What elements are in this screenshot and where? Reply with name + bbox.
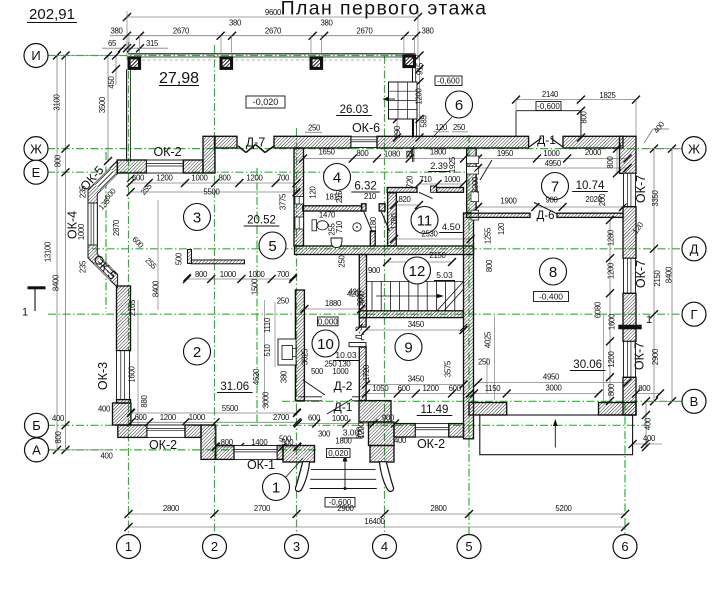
svg-text:3500: 3500 [98,96,107,113]
axis line Е horizontal [47,171,470,173]
left dim chain 3100/800/8400/800 [65,56,67,451]
svg-text:2700: 2700 [254,504,271,513]
svg-text:720: 720 [406,175,415,188]
svg-text:915: 915 [416,62,425,75]
axis line Г horizontal [48,313,683,315]
stairwell west wall [359,255,366,318]
svg-text:ОК-2: ОК-2 [153,145,181,159]
corridor wall east part [557,213,623,217]
door Д-6 leaf [534,203,557,214]
entry stair left banister [295,462,309,492]
svg-text:1200: 1200 [607,350,616,367]
svg-text:5: 5 [268,238,276,255]
axis circle И [24,44,48,68]
svg-text:2140: 2140 [542,90,559,99]
svg-text:31.06: 31.06 [220,381,249,393]
wall NE corner [620,136,637,173]
axis circle 6 [613,535,637,559]
room 3 dim 5500 total [131,191,297,193]
svg-text:450: 450 [107,75,116,88]
svg-text:2900: 2900 [651,348,660,365]
svg-text:ОК-1: ОК-1 [247,458,275,472]
vestibule door jamb [379,204,385,211]
svg-text:1900: 1900 [500,197,517,206]
wall after ОК-2 bottom [185,425,201,437]
room circle 9 [395,334,422,361]
svg-text:9600: 9600 [265,8,282,17]
svg-text:А: А [32,443,41,458]
svg-text:8400: 8400 [152,280,161,297]
room 11 dim 2530 [394,238,470,240]
minor green axis at bay window [105,152,107,312]
svg-text:800: 800 [195,270,208,279]
svg-text:Е: Е [32,165,41,180]
WC door leaf [364,211,373,232]
svg-text:1000: 1000 [444,175,461,184]
svg-text:2800: 2800 [163,504,180,513]
room 9 dim row 1050/600/1200/600 [366,393,470,395]
dimension texts [44,8,674,526]
svg-text:315: 315 [146,39,159,48]
svg-text:380: 380 [229,19,242,28]
svg-text:235: 235 [79,185,88,198]
wall Ж segment Д-1 to corner [563,136,623,148]
axis line А horizontal [47,449,316,451]
wall В-axis segment west [469,403,507,416]
right wall top dim 800 [616,149,618,174]
section mark 1 left [28,286,46,289]
svg-text:202,91: 202,91 [29,6,75,23]
svg-text:290: 290 [393,125,402,138]
window ОК-6 [351,137,377,148]
svg-text:-0,020: -0,020 [253,97,279,107]
svg-text:В: В [690,394,699,409]
room 10 dim 1880 [304,308,361,310]
svg-text:1110: 1110 [263,317,272,333]
stair direction arrow [376,295,440,297]
level 0,020 [327,449,351,458]
svg-text:1470: 1470 [319,211,336,220]
room9 west wall upper [359,318,366,327]
room 9 dim 3450 top [366,329,464,331]
wall В-axis segment east [599,403,637,416]
axis circle 4 [373,535,397,559]
svg-text:1000: 1000 [248,270,265,279]
svg-text:1000: 1000 [220,270,237,279]
svg-text:3775: 3775 [279,193,288,210]
svg-text:880: 880 [140,394,149,407]
svg-text:1000: 1000 [543,149,560,158]
svg-text:ОК-3: ОК-3 [96,362,110,390]
svg-text:0,020: 0,020 [328,449,349,458]
stair break line [437,282,463,311]
svg-text:1400: 1400 [251,438,268,447]
svg-text:3000: 3000 [261,391,270,408]
witness tick marks [127,175,134,182]
svg-text:1000: 1000 [332,367,349,376]
axis circle Б [25,413,49,437]
axis circle Е [24,160,48,184]
axis line И horizontal [47,55,418,57]
room circle 7 [542,173,569,200]
svg-text:6: 6 [621,539,628,554]
svg-text:1: 1 [22,307,28,319]
svg-text:1200: 1200 [606,262,615,279]
window ОК-7 upper [624,173,636,206]
svg-text:1200: 1200 [156,173,173,182]
wall SW corner [113,403,131,425]
svg-text:400: 400 [98,405,111,414]
corridor wall west part [467,213,531,217]
room3 inner dim vertical [157,200,159,310]
svg-text:1600: 1600 [127,365,136,382]
svg-text:235: 235 [79,260,88,273]
svg-text:3025: 3025 [300,348,309,365]
svg-text:1800: 1800 [335,437,352,446]
sink [331,238,342,248]
svg-text:26.03: 26.03 [340,104,369,116]
wall Б-axis right piece [449,424,464,437]
dim 4950 room 8 [478,382,628,384]
svg-text:800: 800 [221,438,234,447]
svg-text:8400: 8400 [665,266,674,283]
room 2 dim row 600/1200/1000/2700 [131,421,297,423]
svg-text:2000: 2000 [585,148,602,157]
room 8 vertical dim chain [609,220,611,401]
svg-text:3450: 3450 [408,320,425,329]
window ОК-4 [88,203,97,245]
lobby partition room10-room1 [298,396,322,398]
room circle 4 [324,164,351,191]
svg-text:8: 8 [549,264,557,281]
svg-text:200: 200 [598,193,607,206]
svg-text:4: 4 [333,169,341,186]
svg-text:2670: 2670 [356,27,373,36]
room2 inner dim vertical [264,300,266,410]
svg-text:5: 5 [465,539,472,554]
svg-text:800: 800 [638,384,651,393]
svg-text:380: 380 [320,19,333,28]
bottom total dim 16400 [129,526,626,528]
svg-text:2: 2 [193,344,201,361]
svg-text:3: 3 [293,539,300,554]
svg-text:27,98: 27,98 [159,70,199,87]
svg-text:3: 3 [193,209,201,226]
wall Ж segment ОК-6 to Д-1 [377,136,529,148]
svg-text:2530: 2530 [421,230,438,239]
hall dim row 1950/1000/2000 [478,158,628,160]
svg-text:500: 500 [279,435,292,444]
vent boxes in wall [467,156,479,164]
stair window grid [389,82,418,119]
svg-text:2900: 2900 [337,504,354,513]
tambour right pillar [370,446,394,463]
svg-text:2200: 2200 [471,176,480,193]
svg-text:10: 10 [317,336,334,353]
svg-text:4: 4 [381,539,388,554]
right-bottom dim 400 horizontal [633,443,662,445]
axis line 2 vertical [214,45,216,535]
svg-text:2165: 2165 [128,299,137,316]
svg-text:1: 1 [125,539,132,554]
tambour left pillar [283,446,315,463]
dim 800 right of wall [636,393,660,395]
svg-text:3450: 3450 [408,375,425,384]
svg-text:380: 380 [280,370,289,383]
svg-text:250: 250 [478,358,491,367]
svg-text:20.52: 20.52 [247,215,276,227]
svg-text:ОК-7: ОК-7 [634,175,648,203]
svg-text:Г: Г [690,307,697,322]
svg-text:8400: 8400 [52,274,61,291]
north inside dim row 1650/800/1080/1800 [303,158,464,160]
porch dim 800 vertical [580,111,582,138]
svg-text:2670: 2670 [265,27,282,36]
door Д-1 leaves [529,138,542,147]
svg-text:Д-6: Д-6 [536,210,554,222]
room 2 dim row 800/1400/500 on A wall [216,446,298,448]
svg-text:120: 120 [497,222,506,235]
stair dim 2150 [387,261,452,263]
svg-text:2.39: 2.39 [430,161,448,171]
svg-text:Ж: Ж [30,141,42,156]
svg-text:700: 700 [277,173,290,182]
svg-text:800: 800 [606,155,615,168]
svg-text:800: 800 [485,259,494,272]
WC door jamb [362,204,366,211]
svg-text:4950: 4950 [543,373,560,382]
svg-text:2: 2 [211,539,218,554]
entry stair up arrow [344,460,346,489]
terrace outline [480,415,633,455]
level -0,020 [246,96,285,108]
svg-text:6: 6 [455,97,463,114]
svg-text:ОК-2: ОК-2 [417,437,445,451]
room circle 11 [411,207,438,234]
axis line Б horizontal [47,424,645,426]
window ОК-3 [117,351,130,400]
leader 400 NE corner [644,129,653,143]
svg-text:10.03: 10.03 [335,350,357,360]
svg-text:Д-1: Д-1 [537,133,556,147]
column K2 [220,57,233,70]
window ОК-5 lower diagonal [94,258,116,280]
door Д-7 folding symbol [238,146,246,153]
svg-text:3000: 3000 [545,384,562,393]
left room2 dim vertical chain [137,300,139,425]
axis circle 5 [457,535,481,559]
svg-text:-0,600: -0,600 [537,102,560,111]
svg-text:400: 400 [643,434,656,443]
svg-text:1050: 1050 [372,384,389,393]
minor green axis x257 [256,168,258,425]
svg-text:600: 600 [308,414,321,423]
svg-text:ОК-2: ОК-2 [149,438,177,452]
svg-text:30.06: 30.06 [573,359,602,371]
svg-text:1000: 1000 [332,414,349,423]
east wall lower [623,377,636,415]
svg-text:5500: 5500 [203,188,220,197]
veranda roof dashed line [131,59,413,61]
wall Б-axis left piece [394,424,415,437]
svg-text:10.74: 10.74 [576,180,605,192]
porch outline [515,111,517,137]
svg-text:900: 900 [382,414,395,423]
svg-text:11.49: 11.49 [421,404,449,416]
dim row 1150/3000 [474,393,599,395]
svg-text:600: 600 [398,384,411,393]
svg-text:1880: 1880 [325,299,342,308]
svg-text:Ж: Ж [688,141,700,156]
tambour right wall upper [359,401,391,422]
wall room3-room4 vertical [294,148,304,246]
stair window arrow [383,98,395,100]
left inner dim 450 [115,56,117,86]
svg-text:6080: 6080 [593,301,602,318]
svg-text:ОК-7: ОК-7 [633,342,647,370]
room 8 witness 4025 [494,316,496,400]
stair treads room 12 [371,282,373,311]
svg-text:1650: 1650 [319,148,336,157]
axis circle В right [682,389,706,413]
hall dim 4950 total [478,167,628,169]
level 0,000 [318,317,339,326]
svg-text:500: 500 [311,367,324,376]
wall step connector SW [201,425,216,459]
room circle 10 [312,330,339,357]
svg-text:4950: 4950 [545,159,562,168]
corridor wall Д-axis horizontal [295,246,474,255]
svg-text:2150: 2150 [429,251,446,260]
svg-text:1800: 1800 [430,148,447,157]
WC east wall chunk [370,232,375,247]
wall Ж-west segment with step [203,136,215,173]
veranda right wall double line [412,68,414,138]
svg-text:4025: 4025 [484,331,493,348]
wall room9-room8 vertical [464,213,474,439]
svg-text:215: 215 [335,190,344,203]
svg-text:-0,400: -0,400 [539,292,563,302]
svg-text:250: 250 [453,123,466,132]
wall Б-axis SW with window [118,425,147,437]
terrace arrow [554,422,556,448]
window ОК-2 bottom-left [147,425,185,437]
svg-text:1180: 1180 [369,216,378,233]
room9 west wall lower [359,347,366,401]
svg-text:1000: 1000 [191,173,208,182]
room Е dim row 600/1200/1000/800/1200/700 [131,182,297,184]
svg-text:800: 800 [580,110,589,123]
svg-text:4.50: 4.50 [442,222,461,233]
wall Ж segment to Д-7 [215,136,238,148]
svg-text:1200: 1200 [160,413,177,422]
axis line 1 vertical [128,42,130,535]
svg-text:600: 600 [132,173,145,182]
svg-text:380: 380 [110,27,123,36]
svg-text:250: 250 [308,124,321,133]
svg-text:1255: 1255 [483,227,492,244]
svg-text:12: 12 [409,263,426,280]
west wall lower [117,286,131,351]
low wall L-shape room 3 [188,250,192,264]
right dim chain 3350/2150/2900 [653,149,655,402]
svg-text:16400: 16400 [364,517,385,526]
svg-text:Б: Б [32,418,41,433]
axis circle Ж left [24,137,48,161]
axis line В horizontal [282,400,683,402]
svg-text:300: 300 [318,430,331,439]
top dim line 9600 [127,16,418,18]
svg-text:500: 500 [175,252,184,265]
window ОК-2 room 9 [415,424,448,437]
level -0,600 top [435,76,462,86]
veranda left wall double line [126,69,128,161]
bottom dim chain 2800/2700/2900/2800/5200 [129,513,626,515]
flue vents in room3-4 wall [295,197,304,205]
room circle 5 [259,232,286,259]
door Д-3 leaf bar [349,343,366,347]
room circle 6 with leader [433,117,452,137]
svg-text:585: 585 [420,114,429,127]
room 1 dim row 600/1000/900 [298,423,395,425]
svg-text:3575: 3575 [444,360,453,377]
wall А-axis west of tambour [277,446,283,460]
corridor dim row 1900/900/2020 [478,206,623,208]
east wall between windows 1 [623,207,636,259]
svg-text:710: 710 [419,175,432,184]
room 8 witness 250 [486,358,488,394]
window ОК-1 [234,446,277,460]
svg-text:11: 11 [417,212,433,229]
svg-text:3100: 3100 [53,93,62,110]
svg-text:1: 1 [272,479,280,496]
svg-text:ОК-7: ОК-7 [634,260,648,288]
wall А-axis piece [216,446,234,460]
svg-text:План первого этажа: План первого этажа [281,0,488,20]
window ОК-5 upper diagonal [94,168,116,190]
column dim extension lines [128,36,130,56]
axis line 3 vertical [296,128,298,535]
svg-text:710: 710 [335,220,344,233]
axis circle Ж right [682,137,706,161]
axis circle А [25,438,49,462]
top-right dim line 2140/1825 [516,99,636,101]
svg-text:1200: 1200 [423,384,440,393]
axis circle 2 [203,535,227,559]
room 3 bottom dim row 800/1000/1000/700 [187,278,293,280]
svg-text:600: 600 [134,413,147,422]
svg-text:900: 900 [356,293,365,306]
svg-text:1200: 1200 [357,421,366,438]
axis circle Г right [682,302,706,326]
tambour right wall mid [369,422,395,446]
section lintel mark right [618,325,641,330]
svg-text:3350: 3350 [651,189,660,206]
left inner dim 3500 [107,56,109,162]
door Д-1 leaf lobby [327,399,352,414]
hall door Д-5 leaf [480,160,492,180]
svg-text:1720: 1720 [362,364,371,381]
dim line 710/1000 room11 top [419,183,463,185]
flue box room2 wall [278,339,296,365]
wall below stair window [413,119,415,138]
svg-text:800: 800 [607,383,616,396]
room circle 12 [404,257,431,284]
svg-text:900: 900 [545,196,558,205]
axis line 6 vertical [624,402,626,535]
svg-text:1000: 1000 [77,223,86,240]
top dim line 380/2670 chain [110,35,418,37]
